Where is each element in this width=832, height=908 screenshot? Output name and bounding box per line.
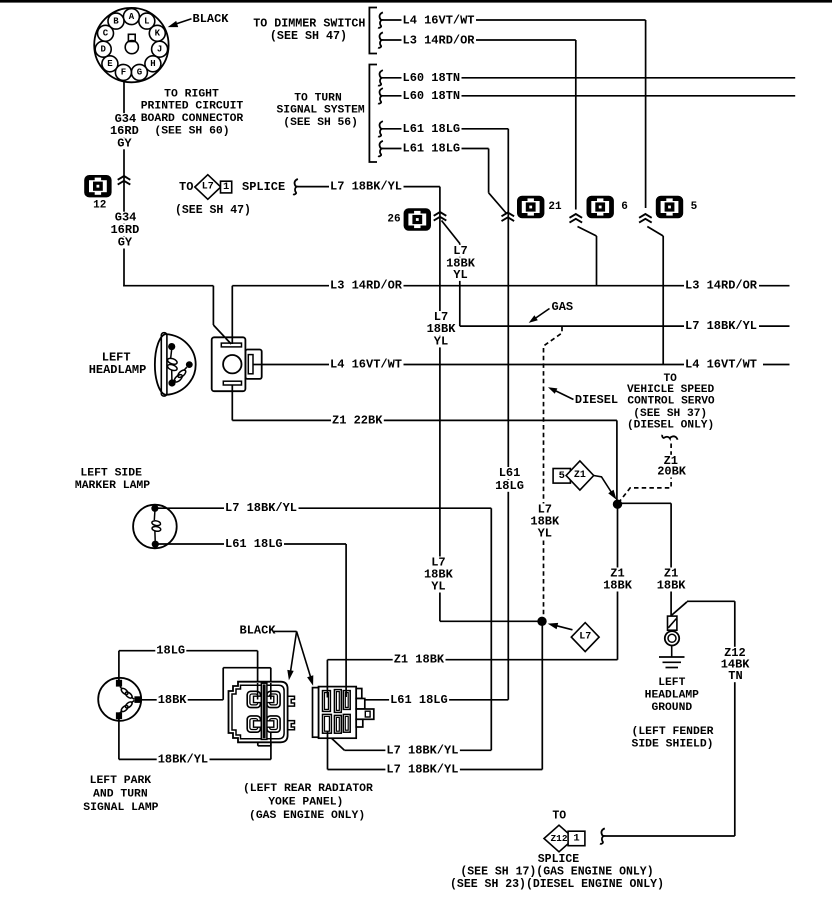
wire-continues squiggle Z1 servo (rotated): [662, 435, 677, 440]
6-way connector cavity c2 bottom: [334, 715, 341, 733]
label 18LG (park lamp): [155, 645, 186, 657]
wire L3 diagonal below connector 6 break: [578, 227, 597, 237]
svg-text:BOARD CONNECTOR: BOARD CONNECTOR: [141, 113, 244, 125]
wire L4 vertical to L4 bus: [662, 236, 664, 365]
svg-text:K: K: [155, 29, 161, 39]
wire G34 diagonal into headlamp connector top cavity: [213, 325, 231, 344]
wire L7 18BK/YL from side marker lamp: [158, 507, 491, 509]
headlamp connector right cavity: [248, 355, 253, 374]
svg-text:L4 16VT/WT: L4 16VT/WT: [403, 14, 475, 28]
wire L61 vertical into yoke connector: [345, 544, 347, 691]
wire L60 18TN lower: [382, 95, 796, 97]
headlamp connector top cavity: [221, 343, 241, 347]
in-line connector break on L7 wire (cavity 26): [434, 212, 447, 221]
svg-text:18BK: 18BK: [657, 579, 687, 593]
label L7 18BK YL (lower main vertical): [430, 557, 447, 569]
connector C1 pin C: [98, 25, 114, 41]
svg-text:AND TURN: AND TURN: [93, 789, 148, 801]
in-line connector break on G34 wire (cavity 12): [118, 176, 131, 185]
svg-text:YL: YL: [453, 268, 467, 282]
top border bar: [0, 0, 832, 3]
splice cavity box 1 (Z12): [568, 831, 585, 846]
4-way connector bottom cap bottom edge: [258, 745, 271, 747]
svg-text:L3 14RD/OR: L3 14RD/OR: [330, 279, 403, 293]
wire-continues squiggle L4 dimmer: [378, 12, 383, 27]
left side marker lamp: [133, 505, 177, 549]
label 18BK (park lamp): [157, 694, 188, 706]
wire L3 vertical drop to connector 6: [575, 40, 577, 210]
connector C1 pin L: [139, 13, 155, 29]
Z1 ground eyelet terminal: [665, 616, 679, 656]
svg-text:HEADLAMP: HEADLAMP: [645, 689, 699, 701]
svg-text:YL: YL: [434, 334, 448, 348]
wire-continues squiggle L7 splice: [293, 179, 298, 194]
wire stub 18LG into 4-way cavity top-left: [257, 683, 259, 700]
svg-text:L: L: [144, 16, 149, 26]
wire L7 diagonal from yoke connector cavity: [329, 736, 345, 751]
svg-text:18BK: 18BK: [603, 579, 633, 593]
wire stub L3 into headlamp connector top cavity: [231, 337, 233, 345]
label L7 18BK YL (branch, by connector 26): [452, 245, 469, 257]
left headlamp bulb: [155, 333, 196, 396]
connector symbol 21: [517, 196, 544, 218]
wire L7 18BK/YL east stub: [759, 325, 790, 327]
bracket to turn signal system: [369, 65, 377, 163]
connector symbol 6: [587, 196, 614, 218]
wire L7 18BK/YL upper horizontal: [344, 749, 491, 751]
wire G34 16RD GY vertical from connector C1 pin F: [123, 80, 125, 287]
dashed wire diesel routing L7 18BK YL: [544, 327, 563, 621]
wire Z12 14BK TN horizontal: [687, 600, 735, 602]
svg-text:Z1 22BK: Z1 22BK: [332, 413, 383, 427]
svg-text:LEFT PARK: LEFT PARK: [90, 775, 152, 787]
splice box 5 (Z1): [553, 469, 570, 484]
svg-text:(SEE SH 23)(DIESEL ENGINE ONLY: (SEE SH 23)(DIESEL ENGINE ONLY): [450, 878, 664, 891]
label L7 18BK/YL lower (yoke connector): [385, 764, 460, 776]
wire 18LG into 4-way connector / cap left edge: [257, 651, 259, 699]
svg-text:LEFT SIDE: LEFT SIDE: [80, 468, 142, 480]
svg-text:L4 16VT/WT: L4 16VT/WT: [330, 358, 402, 372]
arrowhead at Z1 junction: [608, 490, 616, 500]
wire L7 18BK/YL main vertical: [439, 187, 441, 622]
wire L3 14RD/OR vertical at headlamp connector: [231, 286, 233, 344]
svg-text:L61 18LG: L61 18LG: [403, 122, 461, 136]
label L61 18LG lower: [402, 143, 462, 155]
svg-text:GY: GY: [117, 136, 132, 150]
arrowhead at connector C1: [168, 21, 179, 27]
6-way connector cavity c3 bottom: [343, 714, 350, 732]
leader from Z1 splice symbol to junction: [594, 476, 613, 495]
wire L4 16VT/WT horizontal from headlamp connector: [253, 364, 684, 366]
in-line connector break on L61 wire (cavity 21): [502, 213, 515, 222]
park lamp terminals: [116, 680, 141, 719]
wire Z1 18BK vertical to ground eyelet: [670, 503, 672, 616]
wire Z12 diagonal branch at eyelet: [671, 602, 687, 616]
svg-text:TN: TN: [728, 669, 742, 683]
leader from L7 splice symbol to junction: [555, 625, 573, 630]
wire stub Z1 into 6-way cavity c1: [326, 686, 328, 698]
connector C1 (round 11-cavity printed circuit board connector): [94, 8, 168, 82]
svg-text:5: 5: [691, 201, 698, 213]
wire Z1 22BK horizontal: [232, 419, 617, 421]
wire 18LG horizontal: [119, 650, 258, 652]
svg-text:L61 18LG: L61 18LG: [225, 537, 283, 551]
svg-text:TO: TO: [552, 809, 566, 822]
svg-text:L7 18BK/YL: L7 18BK/YL: [685, 319, 757, 333]
connector C1 pin D: [95, 41, 111, 57]
wire L3 14RD/OR from dimmer switch: [382, 39, 576, 41]
connector C1 pin F: [115, 64, 131, 80]
svg-text:GAS: GAS: [552, 300, 574, 314]
leader DIESEL: [555, 391, 574, 400]
ground symbol left headlamp ground: [659, 657, 685, 668]
svg-text:CONTROL SERVO: CONTROL SERVO: [627, 395, 715, 407]
arrowhead at L7 junction: [548, 623, 559, 629]
leader line BLACK to yoke connectors: [274, 630, 297, 632]
label L4 16VT/WT mid: [329, 359, 404, 371]
wire stub G34 into headlamp connector top cavity: [226, 338, 232, 344]
4-way connector right tab lower: [288, 721, 295, 730]
wire L61 diagonal joining connector 21 break: [489, 193, 507, 214]
svg-text:(SEE SH 37): (SEE SH 37): [633, 408, 707, 420]
wire L4 diagonal below connector 5 break: [647, 227, 663, 237]
wire 18BK from park lamp: [141, 699, 223, 701]
arrowhead GAS at L7 wire: [529, 315, 538, 323]
svg-text:J: J: [157, 45, 162, 55]
left headlamp low beam filament: [173, 367, 187, 383]
in-line connector break on L3 wire (cavity 6): [570, 214, 583, 223]
left headlamp connector: [212, 337, 262, 391]
6-way connector cavity c3 top: [343, 691, 350, 710]
wire L4 16VT/WT from dimmer switch: [382, 19, 646, 21]
svg-text:L60 18TN: L60 18TN: [403, 89, 461, 103]
wire L7 18BK/YL lower horizontal to yoke connector: [328, 769, 543, 771]
wire L61 18LG label run to yoke connector terminal: [365, 699, 508, 701]
wire Z1 vertical into junction: [616, 420, 618, 504]
svg-text:SPLICE: SPLICE: [538, 853, 580, 866]
label L7 18BK/YL (marker lamp): [224, 502, 299, 514]
leader line BLACK to connector C1: [175, 19, 192, 24]
splice symbol Z1: [566, 461, 594, 490]
wire Z12 14BK TN vertical: [734, 601, 736, 836]
splice symbol Z12: [544, 825, 574, 852]
svg-text:(SEE SH 60): (SEE SH 60): [154, 126, 229, 138]
svg-text:L7 18BK/YL: L7 18BK/YL: [225, 501, 297, 515]
svg-text:18BK/YL: 18BK/YL: [158, 752, 208, 766]
wire L61 18LG lower: [382, 148, 489, 150]
wire 18BK to 4-way connector cap: [223, 667, 257, 669]
svg-text:18LG: 18LG: [495, 479, 524, 493]
svg-text:GY: GY: [118, 236, 133, 250]
label Z1 20BK: [663, 455, 680, 467]
wire L7 vertical at yoke connector cavity: [327, 735, 329, 770]
wire-continues squiggle L61 upper: [378, 121, 383, 136]
connector C1 pin K: [149, 25, 165, 41]
wire 18BK/YL into 4-way connector bottom: [270, 733, 272, 759]
leader GAS: [535, 309, 550, 319]
4-way connector cavity bottom-right: [267, 716, 280, 732]
svg-text:H: H: [150, 59, 155, 69]
connector C1 pin A: [123, 9, 139, 25]
4-way connector bottom cap left: [257, 742, 259, 746]
svg-text:L3 14RD/OR: L3 14RD/OR: [403, 33, 476, 47]
connector C1 pin J: [152, 41, 168, 57]
svg-text:YL: YL: [538, 527, 552, 541]
in-line connector break on L4 wire (cavity 5): [639, 214, 652, 223]
svg-text:12: 12: [93, 200, 106, 212]
svg-text:SIGNAL LAMP: SIGNAL LAMP: [83, 802, 158, 814]
label L61 18LG (main vertical): [498, 467, 522, 479]
svg-text:(GAS ENGINE ONLY): (GAS ENGINE ONLY): [249, 810, 365, 822]
4-way cap inner edge: [270, 683, 272, 700]
wire Z1 vertical into yoke connector cavity: [326, 660, 328, 691]
svg-text:(SEE SH 47): (SEE SH 47): [175, 204, 251, 217]
svg-text:5: 5: [559, 470, 565, 482]
svg-text:LEFT: LEFT: [658, 677, 685, 689]
svg-text:TO: TO: [179, 180, 193, 194]
svg-text:L61 18LG: L61 18LG: [390, 693, 448, 707]
label L60 18TN lower: [402, 90, 462, 102]
dashed wire Z1 20BK to vehicle speed control servo: [620, 444, 672, 502]
label G34 16RD GY upper: [114, 113, 138, 125]
headlamp connector center hole: [223, 355, 241, 373]
svg-text:HEADLAMP: HEADLAMP: [89, 363, 147, 377]
6-way radiator yoke panel connector (right): [313, 687, 374, 739]
junction node L7: [537, 617, 546, 626]
svg-text:(SEE SH 17)(GAS ENGINE ONLY): (SEE SH 17)(GAS ENGINE ONLY): [460, 866, 653, 879]
wire L61 18LG upper: [382, 128, 509, 130]
4-way connector cap right edge: [270, 668, 272, 699]
wire L7 18BK/YL vertical below junction: [541, 621, 543, 769]
wire L3 14RD/OR east stub: [759, 285, 790, 287]
left headlamp high beam filament: [167, 349, 178, 380]
wire-continues squiggle L60 upper: [378, 70, 383, 85]
svg-text:L4 16VT/WT: L4 16VT/WT: [685, 358, 757, 372]
wire Z1 22BK vertical from headlamp connector bottom cavity: [231, 385, 233, 420]
connector C1 pin H: [145, 56, 161, 72]
svg-text:L7: L7: [202, 182, 214, 193]
label 18BK/YL (park lamp): [157, 753, 210, 765]
label L60 18TN upper: [402, 72, 462, 84]
connector symbol 12: [84, 175, 111, 197]
wire Z1 18BK horizontal to yoke connector: [327, 659, 617, 661]
wire G34 horizontal run to headlamp connector: [123, 285, 213, 287]
svg-text:YL: YL: [431, 580, 445, 594]
svg-text:MARKER LAMP: MARKER LAMP: [75, 480, 150, 492]
svg-text:PRINTED CIRCUIT: PRINTED CIRCUIT: [141, 101, 244, 113]
connector C1 pin G: [131, 64, 147, 80]
wire Z12 horizontal to splice: [604, 835, 735, 837]
wire L7 horizontal to junction: [440, 620, 542, 622]
label L3 14RD/OR east: [684, 280, 759, 292]
wire-continues squiggle Z12 splice: [600, 828, 605, 843]
label BLACK (connector C1 color): [192, 13, 230, 25]
label Z12 14BK TN: [723, 647, 747, 659]
wire L7 18BK/YL from splice: [296, 186, 440, 188]
svg-text:L61 18LG: L61 18LG: [403, 142, 461, 156]
label L3 14RD/OR mid: [329, 280, 404, 292]
label Z1 18BK (right vertical): [663, 568, 680, 580]
wire L61 18LG from side marker lamp: [159, 543, 347, 545]
wire 18LG vertical from park lamp: [118, 651, 120, 680]
svg-text:TO TURN: TO TURN: [294, 93, 342, 105]
svg-text:L3 14RD/OR: L3 14RD/OR: [685, 279, 758, 293]
wire L7 18BK/YL vertical from side marker lamp: [490, 508, 492, 750]
wire stub L7 from 6-way cavity c1 bottom: [327, 731, 329, 739]
wire stub Z1 from headlamp connector bottom cavity: [231, 385, 233, 393]
svg-text:L7 18BK/YL: L7 18BK/YL: [330, 180, 402, 194]
wire L60 18TN upper: [382, 77, 796, 79]
label L7 18BK/YL (splice wire): [329, 181, 404, 193]
wire L3 14RD/OR horizontal bus: [232, 285, 684, 287]
svg-text:SPLICE: SPLICE: [242, 180, 285, 194]
svg-text:18LG: 18LG: [156, 644, 185, 658]
wire 18BK/YL horizontal: [119, 758, 271, 760]
svg-text:Z1 18BK: Z1 18BK: [394, 653, 445, 667]
wire L61 18LG main vertical: [507, 129, 509, 700]
svg-text:SIGNAL SYSTEM: SIGNAL SYSTEM: [277, 105, 365, 117]
6-way connector cavity c2 top: [334, 690, 341, 713]
svg-text:(LEFT REAR RADIATOR: (LEFT REAR RADIATOR: [243, 783, 373, 795]
svg-text:L7 18BK/YL: L7 18BK/YL: [386, 763, 458, 777]
label L61 18LG upper: [402, 123, 462, 135]
svg-text:DIESEL: DIESEL: [575, 393, 618, 407]
svg-text:F: F: [121, 68, 126, 78]
4-way connector cavity bottom-left: [247, 716, 260, 732]
svg-text:1: 1: [573, 832, 579, 844]
svg-text:21: 21: [548, 201, 562, 213]
bracket to dimmer switch: [369, 8, 377, 54]
wire L7 branch diagonal at connector 26 break: [442, 221, 460, 244]
svg-text:A: A: [129, 12, 135, 22]
splice symbol L7 (to splice, see SH 47): [195, 175, 221, 200]
svg-text:(SEE SH 56): (SEE SH 56): [283, 117, 358, 129]
svg-text:VEHICLE SPEED: VEHICLE SPEED: [627, 384, 715, 396]
4-way connector right tab upper: [288, 696, 295, 706]
6-way connector cavity c1 bottom: [323, 714, 332, 733]
left park and turn signal lamp: [98, 678, 141, 721]
junction node Z1: [613, 500, 622, 509]
svg-text:TO RIGHT: TO RIGHT: [164, 89, 219, 101]
connector C1 pin E: [102, 56, 118, 72]
svg-text:L7 18BK/YL: L7 18BK/YL: [386, 743, 458, 757]
wire-continues squiggle L61 lower: [378, 141, 383, 156]
wire stub L61 into 6-way cavity c3: [345, 686, 347, 697]
4-way connector cap top edge: [258, 667, 271, 669]
4-way connector cavity top-left: [247, 691, 260, 707]
svg-text:Z12: Z12: [550, 833, 567, 844]
svg-text:SIDE SHIELD): SIDE SHIELD): [631, 738, 713, 750]
wire L7 18BK/YL horizontal to east: [460, 325, 684, 327]
4-way connector cavity top-right: [267, 691, 280, 707]
svg-text:Z1: Z1: [574, 470, 586, 481]
svg-text:L7: L7: [579, 632, 591, 643]
wire L61 lower vertical jog: [488, 149, 490, 193]
svg-text:GROUND: GROUND: [651, 702, 692, 714]
connector symbol 26: [404, 208, 431, 230]
4-way radiator yoke panel connector (left): [229, 682, 288, 743]
label L7 18BK YL (dashed diesel wire): [537, 504, 554, 516]
connector symbol 5: [656, 196, 683, 218]
svg-text:(LEFT FENDER: (LEFT FENDER: [631, 726, 713, 738]
wire L4 vertical drop to connector 5: [645, 20, 647, 208]
6-way connector cavity c1 top: [323, 691, 331, 712]
svg-text:6: 6: [621, 201, 628, 213]
4-way connector center mating bar: [261, 683, 267, 739]
wire L7 branch vertical: [459, 244, 461, 327]
wire Z1 18BK horizontal to ground eyelet branch: [618, 502, 672, 504]
wire L4 16VT/WT east stub: [763, 364, 790, 366]
label L3 14RD/OR (dimmer): [402, 34, 477, 46]
wire L3 vertical to L3 bus: [596, 236, 598, 286]
connector C1 center keyway: [125, 34, 138, 53]
svg-text:26: 26: [387, 214, 400, 226]
wire-continues squiggle L60 lower: [378, 88, 383, 103]
svg-text:L60 18TN: L60 18TN: [403, 71, 461, 85]
park lamp filament upper: [120, 687, 134, 700]
marker lamp terminals: [151, 505, 158, 512]
label L7 18BK/YL upper (yoke connector): [385, 744, 460, 756]
svg-text:20BK: 20BK: [657, 465, 687, 479]
park lamp filament lower: [120, 701, 134, 713]
svg-text:BLACK: BLACK: [240, 624, 277, 638]
wire-continues squiggle L3 dimmer: [378, 32, 383, 47]
connector C1 pin B: [108, 13, 124, 29]
svg-text:B: B: [113, 16, 119, 26]
svg-text:G: G: [137, 68, 142, 78]
label L4 16VT/WT (dimmer): [402, 15, 477, 27]
svg-text:E: E: [107, 59, 113, 69]
splice cavity box 1: [221, 181, 232, 193]
label L4 16VT/WT east: [684, 359, 759, 371]
headlamp connector bottom cavity: [223, 381, 241, 385]
arrowhead at 6-way yoke connector: [307, 675, 313, 686]
arrowhead DIESEL at dashed wire: [548, 387, 557, 394]
label Z1 22BK: [331, 414, 384, 426]
label G34 16RD GY lower: [114, 212, 138, 224]
svg-text:1: 1: [223, 181, 229, 193]
splice symbol L7 (junction): [571, 623, 599, 652]
svg-text:18BK: 18BK: [158, 693, 188, 707]
wire stub 18BK/YL through 4-way bottom wall: [270, 732, 272, 746]
svg-text:YOKE PANEL): YOKE PANEL): [268, 797, 343, 809]
label L61 18LG (yoke connector): [389, 694, 449, 706]
wire stub L4 from headlamp connector right cavity: [253, 364, 263, 366]
svg-text:BLACK: BLACK: [193, 12, 230, 26]
wire Z1 18BK vertical below junction: [617, 504, 619, 660]
marker lamp filament: [151, 511, 161, 541]
label Z1 18BK (yoke connector): [393, 654, 446, 666]
wire 18BK vertical wrap at 4-way connector: [222, 668, 224, 700]
svg-text:(DIESEL ONLY): (DIESEL ONLY): [627, 420, 714, 432]
svg-text:C: C: [103, 29, 109, 39]
svg-text:(SEE SH 47): (SEE SH 47): [270, 29, 347, 43]
wire 18BK/YL vertical from park lamp: [118, 719, 120, 760]
wire G34 vertical jog: [212, 286, 214, 325]
svg-text:D: D: [100, 45, 106, 55]
label L7 18BK YL (main vertical): [433, 311, 450, 323]
label L61 18LG (marker lamp): [224, 538, 284, 550]
label L7 18BK/YL east: [684, 320, 759, 332]
left headlamp terminals: [168, 343, 175, 350]
arrowhead at 4-way yoke connector: [287, 670, 293, 680]
label Z1 18BK (left vertical): [609, 568, 626, 580]
